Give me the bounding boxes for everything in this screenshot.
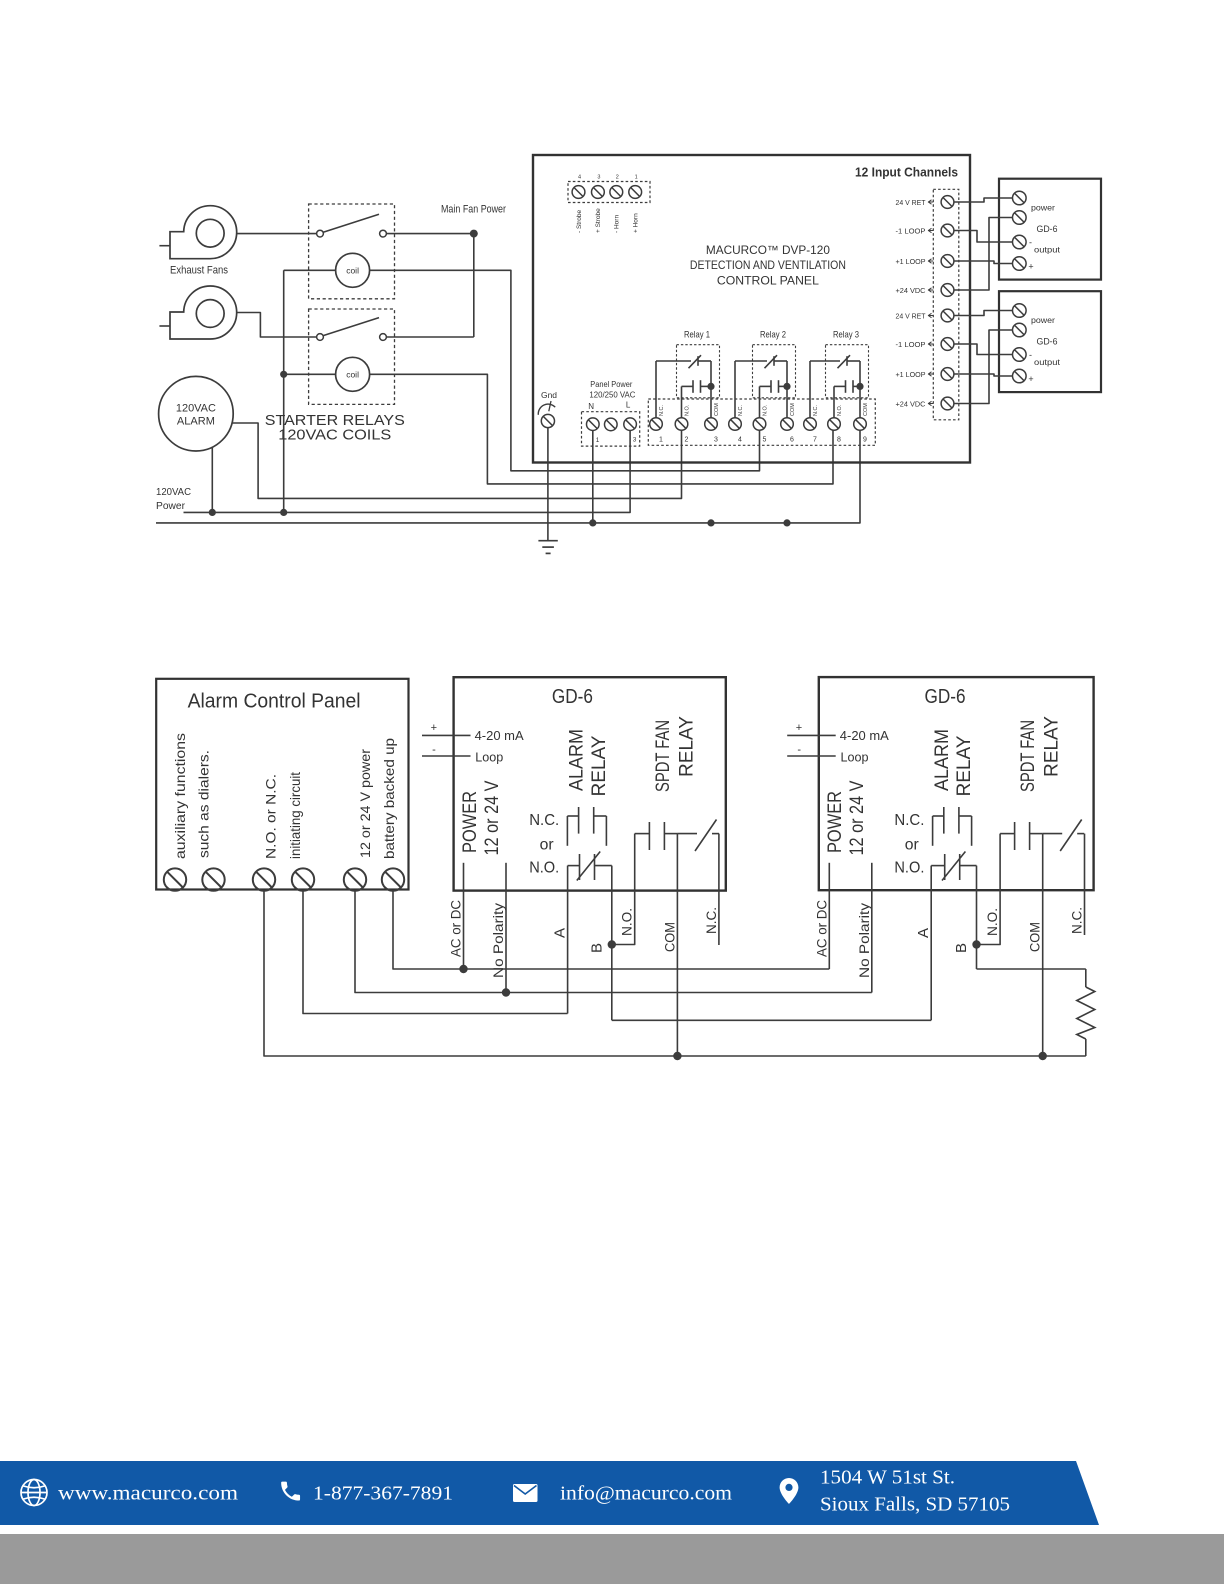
svg-text:1-877-367-7891: 1-877-367-7891 <box>313 1483 453 1505</box>
svg-text:Main Fan Power: Main Fan Power <box>441 204 506 216</box>
loop polarity labels <box>431 722 437 756</box>
terminal screw N <box>587 402 600 444</box>
svg-text:coil: coil <box>346 265 359 275</box>
svg-text:N.C.: N.C. <box>813 405 819 416</box>
terminal screw 7 (N.C.) <box>804 405 820 444</box>
svg-text:GD-6: GD-6 <box>1037 224 1058 234</box>
svg-text:120VAC: 120VAC <box>156 486 191 498</box>
svg-text:No Polarity: No Polarity <box>857 903 872 978</box>
svg-text:L: L <box>626 401 631 410</box>
location pin icon <box>780 1478 799 1504</box>
junction dot line B / terminal 6 <box>783 519 790 526</box>
svg-text:AC or DC: AC or DC <box>449 900 464 957</box>
svg-text:12 or 24 V power: 12 or 24 V power <box>357 749 373 858</box>
exhaust fan 2 left stub wire <box>159 325 170 327</box>
svg-text:120VAC: 120VAC <box>176 403 216 415</box>
Relay 1 N.O. contact <box>682 380 712 393</box>
svg-text:+ Horn: + Horn <box>633 213 640 233</box>
svg-text:- Strobe: - Strobe <box>576 209 583 233</box>
Relay 2 N.C. contact <box>735 355 787 368</box>
exhaust fan 1 (blower symbol) <box>170 206 237 259</box>
panel power middle screw <box>605 418 618 431</box>
alarm relay N.O. contact symbol (in circuit) <box>568 852 612 891</box>
svg-text:12 Input Channels: 12 Input Channels <box>855 165 958 180</box>
svg-text:such as dialers.: such as dialers. <box>195 750 211 858</box>
label N.C. or N.O. <box>529 812 559 877</box>
svg-text:COM: COM <box>863 403 869 416</box>
svg-text:2: 2 <box>685 437 689 444</box>
wire switch2 to Main Fan Power vertical <box>386 336 473 338</box>
strobe/horn terminal strip (dashed) <box>568 182 650 203</box>
EOL resistor <box>1077 969 1095 1056</box>
4-20 mA loop + stub <box>787 734 836 736</box>
wire +1 LOOP ch1 to GD-6 A output + <box>954 261 1013 264</box>
svg-text:Loop: Loop <box>475 750 503 765</box>
svg-text:COM: COM <box>714 403 720 416</box>
svg-text:output: output <box>1034 246 1061 255</box>
channel terminal screw +24 VDC (ch1) <box>896 284 954 297</box>
svg-text:POWER: POWER <box>460 791 481 853</box>
footer blue banner <box>0 1461 1099 1525</box>
channel terminal screw +24 VDC (ch2) <box>896 397 954 410</box>
Relay 3 COM junction dot <box>856 383 863 390</box>
Relay 1 dashed box <box>677 345 720 398</box>
wire +24 VDC ch1 to GD-6 A power <box>954 218 1013 291</box>
label N.C. or N.O. <box>894 812 924 877</box>
svg-text:1: 1 <box>596 437 600 444</box>
wire alarm to panel terminal 2 <box>232 423 682 498</box>
svg-text:1504 W 51st St.: 1504 W 51st St. <box>820 1467 955 1489</box>
wire 24V RET ch2 to GD-6 B power <box>954 311 1013 316</box>
svg-text:GD-6: GD-6 <box>1037 337 1058 347</box>
switch contact S1 (starter relay 1) <box>317 214 387 237</box>
svg-text:-: - <box>432 744 436 756</box>
svg-text:B: B <box>953 943 970 953</box>
SPDT fan relay contact symbol <box>1000 820 1084 891</box>
4-20 mA loop - stub <box>422 755 471 757</box>
svg-text:AC or DC: AC or DC <box>814 900 829 957</box>
svg-text:COM: COM <box>1028 922 1043 952</box>
svg-text:initiating circuit: initiating circuit <box>287 772 303 859</box>
wire B (GD-6 1) to A (GD-6 2) <box>612 1019 931 1021</box>
svg-text:Relay 2: Relay 2 <box>760 330 786 341</box>
GD-6 box <box>819 677 1094 890</box>
Relay 1 N.C. contact <box>656 355 711 368</box>
svg-text:COM: COM <box>790 403 796 416</box>
wire initiating return bus (bottom row) <box>264 891 1086 1056</box>
earth ground symbol <box>538 541 557 554</box>
wire N.C. stub (GD-6 1) <box>718 891 720 945</box>
wire N.C. stub (GD-6 2) <box>1084 890 1086 935</box>
svg-text:-: - <box>1029 350 1032 360</box>
alarm relay N.C. contact symbol <box>567 807 606 846</box>
Relay 3 dashed box <box>826 345 869 398</box>
svg-text:COM: COM <box>662 922 677 952</box>
svg-text:N.O.: N.O. <box>529 860 559 877</box>
node Main Fan Power (junction dot) <box>470 230 478 238</box>
wire coil2 right to panel terminal 8 <box>370 374 833 484</box>
svg-text:4-20 mA: 4-20 mA <box>475 728 524 743</box>
wire switch1 to Main Fan Power node <box>386 233 473 235</box>
svg-text:or: or <box>905 837 920 854</box>
terminal screw 9 (COM) <box>854 403 870 444</box>
svg-text:7: 7 <box>813 437 817 444</box>
junction dot bottom row / COM (GD-6 1) <box>673 1052 681 1060</box>
svg-text:A: A <box>552 928 569 938</box>
channel terminal screw 24 V RET (ch1) <box>896 196 954 209</box>
wire Main Fan Power vertical <box>473 234 475 337</box>
Relay 2 N.C. lead to terminal <box>734 361 736 418</box>
wire A drop (GD-6 1) <box>567 891 569 1014</box>
Relay 2 dashed box <box>753 345 796 398</box>
wire COM drop (GD-6 2) <box>1042 890 1044 1056</box>
label ALARM RELAY (rotated) <box>567 729 610 797</box>
svg-text:SPDT FAN: SPDT FAN <box>1018 720 1039 792</box>
label 4-20 mA Loop <box>475 728 524 765</box>
wire terminal N to line B <box>592 431 594 523</box>
terminal screw + Strobe (pin 3) <box>592 175 605 234</box>
panel title MACURCO DVP-120 <box>690 243 846 288</box>
svg-text:4: 4 <box>738 437 742 444</box>
switch contact S2 (starter relay 2) <box>317 318 387 341</box>
svg-text:+: + <box>431 722 437 734</box>
svg-text:N.O.: N.O. <box>894 860 924 877</box>
svg-text:Relay 3: Relay 3 <box>833 330 859 341</box>
alarm panel screw 1 <box>164 868 186 890</box>
label POWER 12 or 24 V <box>825 780 868 855</box>
terminal screw 6 (COM) <box>781 403 797 444</box>
alarm panel screw 3 <box>253 868 275 890</box>
wire 24V RET ch1 to GD-6 A power <box>954 198 1013 202</box>
terminal screw L <box>624 401 637 444</box>
junction dot bottom row / COM (GD-6 2) <box>1039 1052 1047 1060</box>
svg-text:6: 6 <box>790 437 794 444</box>
wire B/N.O. (GD-6 2) to EOL resistor <box>977 968 1086 970</box>
svg-text:GD-6: GD-6 <box>925 686 966 708</box>
svg-text:+: + <box>1028 262 1033 272</box>
svg-text:N.O.: N.O. <box>763 404 769 416</box>
Relay 3 N.C. lead to terminal <box>809 361 811 418</box>
label SPDT FAN RELAY (rotated) <box>1018 716 1063 792</box>
wire AC or DC drop (GD-6 1) <box>463 891 465 969</box>
svg-text:coil: coil <box>346 369 359 379</box>
label SPDT FAN RELAY (rotated) <box>653 716 698 792</box>
120VAC ALARM circle <box>159 376 234 451</box>
svg-text:12 or 24 V: 12 or 24 V <box>847 780 868 855</box>
junction dot line B / terminal N <box>589 519 596 526</box>
svg-text:DETECTION AND VENTILATION: DETECTION AND VENTILATION <box>690 258 846 272</box>
Relay 1 N.O. lead to terminal <box>681 386 683 417</box>
wire No Polarity drop (GD-6 2) <box>871 890 873 992</box>
channel terminal screw -1 LOOP (ch1) <box>896 224 954 237</box>
globe icon <box>21 1480 47 1506</box>
svg-text:N.C.: N.C. <box>738 405 744 416</box>
svg-text:N.C.: N.C. <box>894 812 924 829</box>
label ALARM RELAY (rotated) <box>932 729 975 797</box>
svg-text:Alarm Control Panel: Alarm Control Panel <box>188 691 361 713</box>
Relay 1 COM junction dot <box>707 383 714 390</box>
wire initiating circuit to A (GD-6 1) <box>303 891 568 1014</box>
alarm relay N.O. contact symbol (in circuit) <box>931 852 976 891</box>
channel terminal screw +1 LOOP (ch2) <box>896 368 954 381</box>
wire AC or DC drop (GD-6 2) <box>828 890 830 969</box>
svg-text:1: 1 <box>635 175 638 181</box>
input channel terminal strip (dashed) <box>933 189 959 419</box>
svg-text:120/250 VAC: 120/250 VAC <box>589 391 635 400</box>
svg-text:12 or 24 V: 12 or 24 V <box>482 780 503 855</box>
svg-text:3: 3 <box>633 437 637 444</box>
junction dot line B / terminal 3 <box>707 519 714 526</box>
svg-text:SPDT FAN: SPDT FAN <box>653 720 674 792</box>
GD-6 sensor B labels <box>1028 316 1060 384</box>
wire fan2 to starter switch 2 <box>237 313 317 338</box>
svg-text:120VAC COILS: 120VAC COILS <box>278 428 391 444</box>
svg-text:auxiliary functions: auxiliary functions <box>172 733 188 859</box>
label 4-20 mA Loop <box>840 728 889 765</box>
GD-6 sensor B screw 1 <box>1013 304 1027 318</box>
terminal screw 4 (N.C.) <box>729 405 745 444</box>
svg-text:3: 3 <box>597 175 600 181</box>
wire coil bus vertical <box>283 270 285 512</box>
svg-text:+: + <box>796 722 802 734</box>
terminal screw 3 (COM) <box>705 403 721 444</box>
svg-text:info@macurco.com: info@macurco.com <box>560 1483 732 1505</box>
svg-text:2: 2 <box>616 175 619 181</box>
svg-text:N.C.: N.C. <box>659 405 665 416</box>
svg-text:CONTROL PANEL: CONTROL PANEL <box>717 274 819 288</box>
POWER stub wires <box>464 863 507 891</box>
alarm panel screw 4 <box>292 868 314 890</box>
channel terminal screw +1 LOOP (ch1) <box>896 255 954 268</box>
svg-text:+1 LOOP: +1 LOOP <box>896 257 926 266</box>
Relay 1 COM lead to terminal <box>710 361 712 418</box>
svg-text:A: A <box>915 928 932 938</box>
alarm panel screw 6 <box>382 868 404 890</box>
loop polarity labels <box>796 722 802 756</box>
GD-6 sensor B screw 4 <box>1013 369 1027 383</box>
GD-6 sensor A box <box>999 179 1101 280</box>
wire Gnd screw to earth ground <box>547 428 549 541</box>
svg-text:RELAY: RELAY <box>1042 716 1063 777</box>
svg-text:N.O.: N.O. <box>685 404 691 416</box>
svg-text:MACURCO™ DVP-120: MACURCO™ DVP-120 <box>706 243 830 257</box>
svg-text:Panel Power: Panel Power <box>590 380 632 389</box>
GD-6 sensor B screw 3 <box>1013 348 1027 362</box>
coil C1 (starter relay 1 coil) <box>336 253 370 287</box>
GD-6 box <box>454 677 726 890</box>
GD-6 sensor A screw 1 <box>1013 191 1027 205</box>
GD-6 sensor B box <box>999 291 1101 392</box>
GD-6 sensor A screw 2 <box>1013 211 1027 225</box>
terminal screw 5 (N.O.) <box>753 404 769 443</box>
terminal screw 2 (N.O.) <box>675 404 691 443</box>
wire 120VAC line A (hot) <box>184 431 631 513</box>
Relay 3 COM lead to terminal <box>859 361 861 418</box>
svg-text:4: 4 <box>578 175 581 181</box>
svg-text:N.O.: N.O. <box>985 908 1000 936</box>
channel terminal screw 24 V RET (ch2) <box>896 309 954 322</box>
POWER stub wires <box>829 863 872 890</box>
junction dot alarm/120VAC line <box>209 509 216 516</box>
DVP-120 control panel box <box>533 155 970 463</box>
wire No Polarity drop (GD-6 1) <box>505 891 507 993</box>
wire N.O. drop to B junction (GD-6 1) <box>612 891 635 945</box>
svg-text:-1 LOOP: -1 LOOP <box>896 226 926 235</box>
svg-text:+24 VDC: +24 VDC <box>896 286 927 295</box>
svg-text:Exhaust Fans: Exhaust Fans <box>170 265 228 277</box>
panel power terminal strip (dashed) <box>582 412 640 446</box>
svg-text:Gnd: Gnd <box>541 391 557 400</box>
svg-text:power: power <box>1031 204 1055 213</box>
Relay 3 N.O. contact <box>834 380 860 393</box>
svg-text:N.O. or N.C.: N.O. or N.C. <box>263 774 279 859</box>
svg-text:5: 5 <box>763 437 767 444</box>
Relay 2 COM junction dot <box>783 383 790 390</box>
svg-text:battery backed up: battery backed up <box>381 738 397 859</box>
wire coil1 right to panel terminal 5 <box>370 270 760 471</box>
channel terminal screw -1 LOOP (ch2) <box>896 338 954 351</box>
Relay 3 N.O. lead to terminal <box>833 386 835 417</box>
svg-text:www.macurco.com: www.macurco.com <box>58 1483 239 1505</box>
svg-text:No Polarity: No Polarity <box>491 903 506 978</box>
footer gray bar <box>0 1534 1224 1584</box>
svg-text:power: power <box>1031 316 1055 325</box>
wire COM drop (GD-6 1) <box>676 891 678 1056</box>
svg-text:ALARM: ALARM <box>932 729 953 791</box>
terminal screw + Horn (pin 1) <box>629 175 642 234</box>
wire -1 LOOP ch2 to GD-6 B output - <box>954 344 1013 355</box>
svg-text:RELAY: RELAY <box>677 716 698 777</box>
Relay 3 N.C. contact <box>810 355 860 368</box>
terminal screw 1 (N.C.) <box>650 405 666 444</box>
wire A drop (GD-6 2) <box>930 890 932 1020</box>
GD-6 sensor B screw 2 <box>1013 323 1027 337</box>
svg-text:N.O.: N.O. <box>620 908 635 936</box>
wire power bus row 1 (battery+ to AC or DC) <box>393 891 829 969</box>
SPDT fan relay contact symbol <box>635 820 719 891</box>
coil C2 (starter relay 2 coil) <box>336 357 370 391</box>
svg-text:B: B <box>589 943 606 953</box>
svg-text:3: 3 <box>714 437 718 444</box>
GD-6 sensor A labels <box>1028 204 1060 272</box>
svg-text:4-20 mA: 4-20 mA <box>840 728 889 743</box>
svg-text:9: 9 <box>863 437 867 444</box>
junction dot row2 / GD-6 1 No Polarity <box>502 988 510 996</box>
svg-text:N.C.: N.C. <box>1070 907 1085 934</box>
svg-text:-1 LOOP: -1 LOOP <box>896 340 926 349</box>
Relay 2 N.O. contact <box>760 380 788 393</box>
terminal screw - Horn (pin 2) <box>610 175 623 234</box>
svg-text:output: output <box>1034 358 1061 367</box>
wire +24 VDC ch2 to GD-6 B power <box>954 330 1013 404</box>
svg-text:N.C.: N.C. <box>704 907 719 934</box>
starter relay dashed box 2 <box>309 309 395 404</box>
exhaust fan 1 left stub wire <box>159 245 170 247</box>
svg-text:+ Strobe: + Strobe <box>595 208 602 233</box>
starter relay dashed box 1 <box>309 204 395 299</box>
wire -1 LOOP ch1 to GD-6 A output - <box>954 231 1013 243</box>
svg-text:- Horn: - Horn <box>614 215 621 233</box>
label STARTER RELAYS 120VAC COILS <box>265 413 405 444</box>
svg-text:-: - <box>1029 238 1032 248</box>
wire fan1 to starter switch 1 <box>237 233 317 235</box>
svg-text:-: - <box>797 744 801 756</box>
alarm relay N.C. contact symbol <box>933 807 972 846</box>
wire N.O. drop to B junction (GD-6 2) <box>977 890 1001 944</box>
Relay 2 N.O. lead to terminal <box>759 386 761 417</box>
junction dot row1 / GD-6 1 AC or DC <box>459 965 467 973</box>
svg-text:RELAY: RELAY <box>954 735 975 796</box>
wire 120VAC line B (neutral) <box>156 430 860 523</box>
GD-6 sensor A screw 3 <box>1013 235 1027 249</box>
svg-text:+1 LOOP: +1 LOOP <box>896 370 926 379</box>
svg-text:24 V RET: 24 V RET <box>896 198 926 207</box>
label POWER 12 or 24 V <box>460 780 503 855</box>
wire alarm to 120VAC power line <box>211 447 213 512</box>
4-20 mA loop - stub <box>787 755 836 757</box>
junction dot coil bus to 120VAC line <box>280 509 287 516</box>
Relay 1 N.C. lead to terminal <box>655 361 657 418</box>
footer address text <box>820 1467 1010 1516</box>
wire power bus row 2 (power- to No Polarity) <box>355 891 872 993</box>
4-20 mA loop + stub <box>422 734 471 736</box>
junction dot coil2/bus <box>280 371 287 378</box>
junction dot B/N.O. (GD-6 2) <box>972 940 980 948</box>
phone icon <box>281 1482 300 1501</box>
label Panel Power 120/250 VAC <box>589 380 635 400</box>
svg-text:24 V RET: 24 V RET <box>896 311 926 320</box>
svg-text:RELAY: RELAY <box>589 735 610 796</box>
svg-text:Sioux Falls, SD 57105: Sioux Falls, SD 57105 <box>820 1494 1010 1516</box>
svg-text:+: + <box>1028 374 1033 384</box>
svg-text:POWER: POWER <box>825 791 846 853</box>
svg-text:N.O.: N.O. <box>837 404 843 416</box>
svg-text:1: 1 <box>659 437 663 444</box>
wire +1 LOOP ch2 to GD-6 B output + <box>954 374 1013 376</box>
wire B drop (GD-6 2) <box>976 890 978 969</box>
svg-text:Power: Power <box>156 500 185 512</box>
wire coil2 left to bus <box>284 373 336 375</box>
wire coil1 left to bus <box>284 269 336 271</box>
alarm panel screw 5 <box>344 868 366 890</box>
Gnd screw <box>538 391 557 428</box>
panel output terminal strip (dashed) <box>648 399 875 445</box>
svg-text:or: or <box>540 837 555 854</box>
terminal screw 8 (N.O.) <box>828 404 844 443</box>
svg-text:GD-6: GD-6 <box>552 686 593 708</box>
label 120VAC Power <box>156 486 191 512</box>
svg-text:N.C.: N.C. <box>529 812 559 829</box>
terminal screw - Strobe (pin 4) <box>572 175 585 234</box>
svg-text:Relay 1: Relay 1 <box>684 330 710 341</box>
alarm panel screw 2 <box>202 868 224 890</box>
exhaust fan 2 (blower symbol) <box>170 286 237 339</box>
email icon <box>513 1484 538 1502</box>
svg-text:+24 VDC: +24 VDC <box>896 399 927 408</box>
svg-text:ALARM: ALARM <box>177 416 215 428</box>
svg-text:N: N <box>588 402 594 411</box>
wire B drop (GD-6 1) <box>611 891 613 1021</box>
junction dot B/N.O. (GD-6 1) <box>608 940 616 948</box>
Relay 2 COM lead to terminal <box>786 361 788 418</box>
GD-6 sensor A screw 4 <box>1013 257 1027 271</box>
svg-text:Loop: Loop <box>841 750 869 765</box>
svg-text:ALARM: ALARM <box>567 729 588 791</box>
Alarm Control Panel box <box>156 679 408 890</box>
svg-text:8: 8 <box>837 437 841 444</box>
